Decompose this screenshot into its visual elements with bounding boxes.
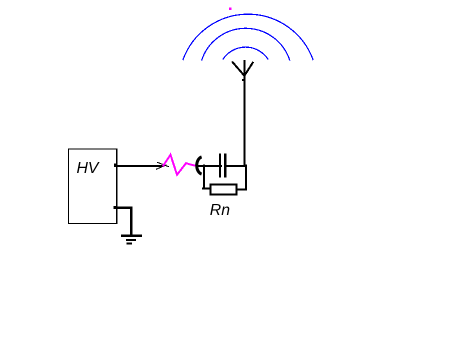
magenta dot <box>229 8 231 10</box>
node bottom terminal nub <box>114 206 117 209</box>
ground bar 3 <box>127 243 132 245</box>
node top terminal nub <box>114 163 118 166</box>
wire HV to arrow <box>116 165 164 167</box>
HV source box <box>68 149 116 224</box>
svg-text:HV: HV <box>77 160 100 177</box>
ground bar 1 <box>121 235 142 237</box>
wire right branch down <box>236 165 246 190</box>
radiation arc middle <box>202 28 290 60</box>
capacitor C1 right plate <box>224 153 226 177</box>
antenna A1 right arm <box>244 62 253 76</box>
spark (magenta zigzag) <box>163 155 196 175</box>
radiation arc inner <box>223 47 268 59</box>
antenna arm end nub <box>242 79 244 81</box>
wire left branch down <box>204 165 211 189</box>
arrow barb lower <box>156 165 167 170</box>
wire HV to ground horizontal <box>115 207 132 209</box>
spark gap arc electrode <box>197 157 202 174</box>
wire left tick <box>202 188 205 190</box>
antenna A1 left arm <box>232 62 244 76</box>
wire ground vertical <box>130 207 132 236</box>
capacitor C1 left plate <box>219 153 221 177</box>
radiation arc outer <box>183 14 313 60</box>
antenna A1 mast <box>244 60 246 167</box>
svg-text:Rn: Rn <box>210 202 230 219</box>
wire arc to capacitor <box>195 165 222 167</box>
wire capacitor to antenna junction <box>224 165 247 167</box>
arrow barb upper <box>157 162 169 167</box>
ground bar 2 <box>126 239 136 241</box>
resistor Rn body <box>210 185 236 195</box>
